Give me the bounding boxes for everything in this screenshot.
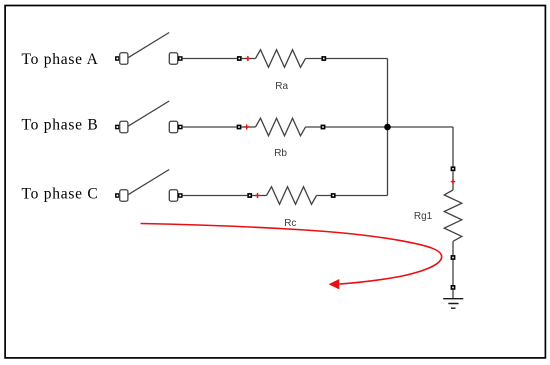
svg-text:To phase A: To phase A [22,51,99,68]
svg-text:Rb: Rb [274,148,287,159]
svg-text:To phase C: To phase C [22,186,99,203]
svg-text:Rg1: Rg1 [414,211,433,222]
svg-text:Rc: Rc [284,218,296,229]
svg-text:To phase B: To phase B [22,117,99,134]
svg-text:Ra: Ra [275,81,288,92]
